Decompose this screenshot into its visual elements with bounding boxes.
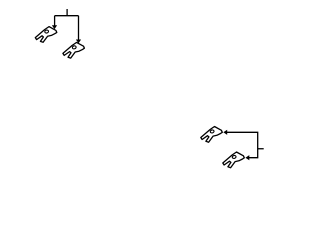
- wire: horizontal bus: [55, 15, 79, 17]
- wire: stub up from bus: [66, 9, 68, 16]
- arrowhead left onto T3: [223, 130, 227, 135]
- wire: right drop: [78, 16, 80, 40]
- wire: top horizontal with corner and drop: [227, 132, 258, 157]
- wire: stub right from drop: [258, 148, 264, 150]
- wire: left drop: [54, 16, 56, 26]
- arrowhead down onto T2: [76, 40, 81, 44]
- terminal T3: [201, 127, 223, 143]
- terminal T1: [35, 27, 57, 43]
- arrowhead left onto T4: [245, 155, 249, 160]
- terminal T4: [223, 152, 245, 168]
- terminal T2: [63, 42, 85, 58]
- arrowhead down onto T1: [52, 25, 57, 29]
